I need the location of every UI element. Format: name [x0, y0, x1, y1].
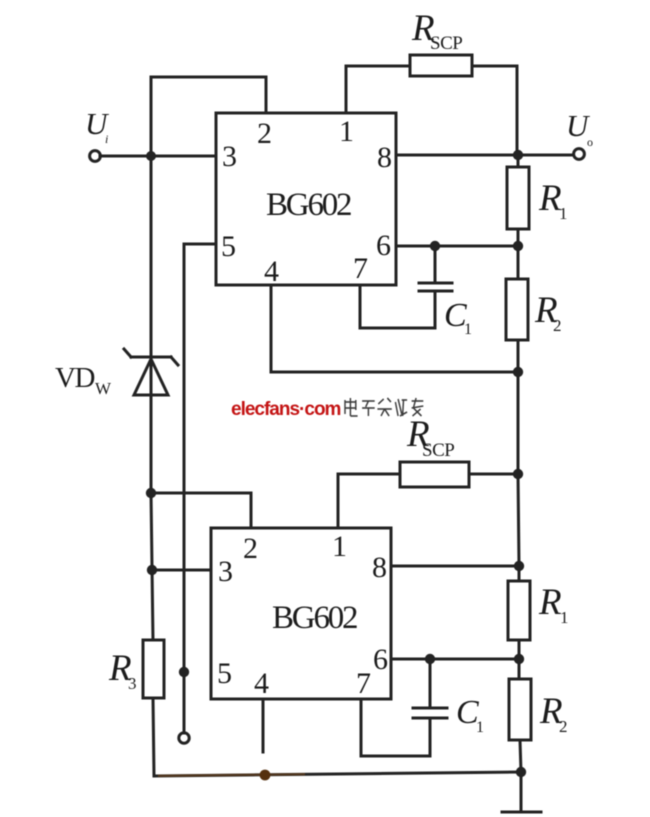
zener diode VDW: [124, 349, 178, 395]
wire R1 lower to node P: [518, 640, 521, 659]
wire pin 3 U2 to node L: [152, 569, 211, 572]
wire node IN up to top rail: [150, 77, 153, 156]
svg-text:5: 5: [217, 657, 232, 690]
node C1a junction: [430, 241, 440, 251]
svg-text:2: 2: [553, 316, 562, 335]
svg-text:1: 1: [464, 321, 472, 338]
svg-text:4: 4: [264, 255, 279, 288]
wire node J to pin 2 U2: [151, 493, 251, 528]
wire pin 4 U1 to node G1: [271, 285, 518, 372]
wire node J down to R3: [151, 493, 153, 641]
svg-text:3: 3: [222, 140, 237, 173]
wire pin 5 U1 down rail: [184, 244, 216, 733]
terminal Ui: [90, 151, 101, 162]
wire C1a top plate lead: [434, 246, 437, 281]
wire node N to R1 lower: [518, 566, 521, 582]
svg-text:7: 7: [356, 667, 371, 700]
svg-text:1: 1: [476, 719, 484, 736]
IC U1 BG602 box: [216, 113, 396, 285]
svg-text:2: 2: [257, 117, 272, 150]
svg-text:5: 5: [221, 230, 236, 263]
wire Ui to node IN: [100, 155, 148, 158]
svg-text:BG602: BG602: [266, 187, 351, 223]
svg-text:i: i: [105, 132, 108, 146]
wire R2 upper to node G1: [517, 340, 520, 372]
wire RSCP upper to node OUT: [472, 66, 517, 153]
resistor R2 upper: [506, 279, 528, 340]
wire node P to R2 lower: [518, 659, 521, 679]
capacitor C1 lower: [413, 707, 447, 710]
svg-text:R: R: [538, 582, 562, 623]
wire top rail to pin 2 of U1: [151, 77, 266, 113]
svg-text:3: 3: [218, 555, 233, 588]
wire node OUT to terminal Uo: [519, 154, 573, 157]
svg-text:1: 1: [339, 115, 354, 148]
node G1 junction: [513, 367, 523, 377]
wire pin 8 U1 to node OUT: [396, 154, 519, 157]
resistor R3: [143, 640, 164, 698]
IC U2 BG602 box: [211, 528, 391, 699]
wire node M to ground: [520, 772, 523, 811]
wire pin 7 U1 to C1a bottom: [360, 285, 435, 328]
svg-text:8: 8: [377, 141, 392, 174]
wire node G1 down to node H: [517, 372, 520, 474]
svg-text:1: 1: [559, 204, 568, 223]
node K junction: [179, 667, 189, 677]
svg-text:6: 6: [376, 229, 391, 262]
wire pin 1 U1 up to RSCP: [346, 66, 410, 113]
svg-text:o: o: [587, 135, 593, 149]
node H junction: [513, 469, 523, 479]
node J junction: [146, 488, 156, 498]
wire R3 to bottom rail: [153, 698, 154, 776]
terminal Uo: [574, 149, 585, 160]
svg-text:3: 3: [128, 674, 137, 693]
resistor R2 lower: [509, 679, 531, 740]
node OUT junction: [513, 150, 523, 160]
svg-text:7: 7: [353, 252, 368, 285]
open terminal lower: [179, 733, 189, 743]
svg-text:6: 6: [373, 643, 388, 676]
svg-text:elecfans·com: elecfans·com: [231, 399, 341, 420]
wire node F1 to R2 upper: [517, 246, 520, 279]
svg-text:VD: VD: [55, 362, 94, 394]
wire pin 4 U2 stub: [262, 699, 265, 752]
watermark tint on bottom rail: [158, 774, 305, 776]
svg-text:BG602: BG602: [272, 600, 357, 636]
wire node OUT to R1 upper: [517, 155, 520, 168]
wire RSCP lower to node H: [469, 473, 519, 476]
wire pin 7 U2 to C1b bottom: [361, 699, 430, 756]
node pin4 mark junction: [260, 770, 271, 781]
node IN junction: [146, 151, 156, 161]
ground: [502, 811, 541, 814]
wire bottom rail: [154, 772, 521, 776]
svg-text:2: 2: [559, 717, 568, 736]
wire pin 6 U1 to node F1: [396, 245, 518, 248]
resistor RSCP lower: [400, 462, 469, 487]
wire pin 6 U2 to node P: [391, 658, 519, 661]
wire pin 8 U2 to node N: [391, 565, 519, 568]
resistor R1 upper: [507, 167, 529, 229]
wire pin 3 U1 to node IN: [151, 155, 216, 158]
svg-text:SCP: SCP: [430, 33, 462, 54]
svg-text:2: 2: [243, 532, 258, 565]
svg-text:1: 1: [332, 530, 347, 563]
svg-text:W: W: [95, 379, 112, 398]
node F1 junction: [513, 241, 523, 251]
wire R1 upper to node F1: [517, 229, 520, 246]
node M junction: [516, 767, 526, 777]
wire node H down to node N: [518, 474, 519, 566]
svg-text:4: 4: [254, 667, 269, 700]
resistor RSCP upper: [410, 55, 472, 76]
wire C1b top plate lead: [429, 659, 432, 706]
wire R2 lower to node M: [520, 740, 521, 772]
node C1b junction: [425, 654, 435, 664]
svg-text:SCP: SCP: [422, 440, 454, 461]
resistor R1 lower: [508, 581, 530, 640]
node P junction: [514, 654, 524, 664]
svg-text:1: 1: [560, 608, 569, 627]
capacitor C1 upper: [419, 282, 452, 285]
watermark chinese characters: [345, 398, 423, 416]
wire pin 1 U2 up to RSCP lower: [338, 474, 400, 528]
node L junction: [147, 565, 157, 575]
wire node IN down through zener: [150, 156, 153, 493]
svg-text:8: 8: [372, 551, 387, 584]
node N junction: [514, 561, 524, 571]
